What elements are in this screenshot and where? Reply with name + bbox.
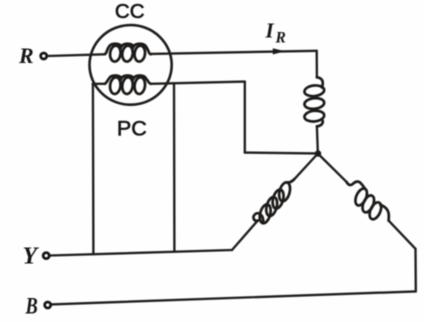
wire corner down to L1 [316,51,319,78]
wire Y diagonal to L2 [232,221,258,250]
wire right corner down [414,249,417,292]
svg-text:CC: CC [115,0,145,23]
svg-text:B: B [25,293,38,320]
wattmeter circle U1 [90,25,172,105]
wire CC out to corner [151,51,317,54]
wire R to wattmeter [47,54,104,56]
terminal B [45,302,51,308]
wire PC right branch to Y line [173,83,176,251]
wire PC left to Y line [92,84,95,254]
svg-text:R: R [275,30,286,47]
wire star node to L3 [319,155,347,182]
svg-text:R: R [18,43,34,68]
svg-text:PC: PC [117,116,147,140]
wire PC left lead [93,83,105,85]
inductor L2 (Y phase, left diagonal) [253,179,294,224]
inductor L1 (R phase, vertical) [304,77,325,126]
inductor L3 (B phase, right diagonal) [347,182,389,221]
wire PC out [151,82,245,84]
terminal R [41,53,47,59]
wire PC to star node [245,151,316,154]
arrow I_R on R line [273,48,285,54]
terminal Y [43,253,49,259]
wire B line [51,291,416,304]
svg-text:I: I [265,18,275,42]
current coil CC [105,44,151,62]
node star point [315,150,321,156]
wire PC down [244,82,246,153]
wire Y line [50,250,232,256]
pressure coil PC [105,76,151,95]
wire L3 to corner [389,221,416,249]
svg-text:Y: Y [23,243,40,269]
wire L1 to star node [316,126,319,151]
wire L2 to star node [294,155,317,180]
